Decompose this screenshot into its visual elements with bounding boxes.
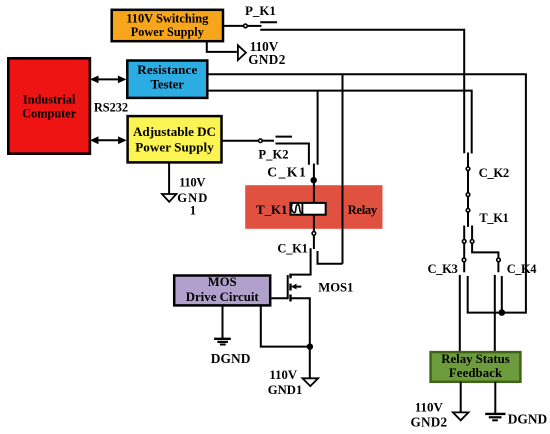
transistor MOS1 body arrow bbox=[295, 286, 302, 288]
svg-text:C_K1: C_K1 bbox=[267, 164, 306, 179]
switch P_K1 contact circle bbox=[244, 24, 248, 28]
wire feedback to DGND bbox=[494, 382, 496, 414]
wire coil top lead bbox=[313, 164, 315, 205]
ground 110V GND 1 triangle bbox=[162, 194, 176, 202]
box 110V Switching Power Supply bbox=[112, 10, 223, 41]
wire drive circuit to source node bbox=[261, 305, 308, 346]
wire C_K4 output to feedback box bbox=[494, 275, 496, 352]
wire C_K3 blade to bus bbox=[468, 276, 526, 313]
svg-text:Resistance: Resistance bbox=[137, 62, 197, 77]
switch contact circle left bbox=[462, 240, 466, 244]
switch C_K1 contact circle bbox=[312, 232, 316, 236]
svg-text:Feedback: Feedback bbox=[449, 366, 503, 380]
svg-text:1: 1 bbox=[190, 204, 196, 218]
wire P_K2 output down to relay coil bbox=[276, 144, 309, 165]
svg-text:110V: 110V bbox=[415, 400, 444, 415]
switch T_K1 contact circle bbox=[466, 209, 470, 213]
transistor MOS1 channel ticks bbox=[289, 274, 291, 279]
wire drive circuit to DGND bbox=[222, 305, 224, 338]
wire vertical through relay box (from top line) redraw over box bbox=[342, 185, 344, 229]
box Adjustable DC Power Supply bbox=[128, 116, 222, 162]
relay coil T_K1 body bbox=[291, 203, 326, 215]
svg-text:C_K3: C_K3 bbox=[428, 262, 458, 276]
ground 110V GND2 triangle bottom bbox=[453, 412, 469, 420]
wire feedback to 110V GND2 bbox=[460, 382, 462, 413]
svg-text:Relay Status: Relay Status bbox=[441, 352, 510, 366]
svg-text:MOS1: MOS1 bbox=[318, 280, 353, 294]
wire left pair to C_K3 bbox=[463, 226, 465, 273]
svg-text:C_K2: C_K2 bbox=[479, 166, 510, 180]
svg-text:MOS: MOS bbox=[208, 275, 237, 289]
wire P_K1 output to C_K2 top-left stub bbox=[260, 30, 464, 154]
switch contact circle right bbox=[470, 240, 474, 244]
switch P_K1 blade bbox=[260, 21, 277, 23]
wire resistance tester bottom output to C_K2 top-right stub bbox=[207, 91, 471, 154]
wire drop to C_K1 top contact bbox=[317, 91, 319, 165]
switch C_K2 contact circle bbox=[466, 167, 470, 171]
wire RS232 arrow computer-tester bbox=[96, 78, 120, 80]
svg-text:GND1: GND1 bbox=[268, 383, 303, 397]
svg-text:T_K1: T_K1 bbox=[256, 202, 288, 217]
transistor MOS1 gate bar bbox=[287, 275, 289, 299]
svg-text:Adjustable DC: Adjustable DC bbox=[133, 124, 216, 139]
wire right pair to C_K4 bbox=[472, 226, 498, 273]
wire DC supply down to 110V GND 1 bbox=[168, 162, 170, 194]
svg-text:Power Supply: Power Supply bbox=[131, 25, 204, 39]
wire drop from top line to C_K1 bottom branch bbox=[342, 74, 344, 263]
ground 110V GND1 triangle bbox=[303, 378, 319, 386]
switch C_K4 contact circle bbox=[497, 258, 501, 262]
svg-text:DGND: DGND bbox=[211, 351, 251, 366]
wire C_K4 blade bbox=[501, 276, 503, 313]
svg-text:C_K4: C_K4 bbox=[507, 262, 537, 276]
junction node source/GND1 bbox=[307, 343, 313, 349]
svg-text:DGND: DGND bbox=[508, 412, 548, 427]
switch C_K2 contact chain middle wire bbox=[467, 153, 469, 227]
ground DGND symbol bbox=[214, 338, 231, 340]
wire source lead down to 110V GND1 bbox=[290, 298, 310, 378]
wire RS232 arrow computer-DC supply bbox=[96, 139, 121, 141]
svg-text:P_K1: P_K1 bbox=[245, 4, 276, 18]
switch P_K1 fixed stub bbox=[248, 25, 262, 27]
wire supply to P_K1 switch bbox=[223, 25, 244, 27]
switch contact circle mid bbox=[466, 193, 470, 197]
switch C_K3 contact circle bbox=[462, 258, 466, 262]
junction node C_K4/bus bbox=[499, 309, 506, 316]
switch P_K2 contact circle bbox=[259, 139, 263, 143]
box Relay bbox=[245, 185, 382, 229]
box MOS Drive Circuit bbox=[174, 276, 270, 306]
svg-text:110V Switching: 110V Switching bbox=[126, 12, 209, 26]
switch C_K1 fixed stub bbox=[313, 235, 315, 249]
ground DGND symbol bottom bbox=[485, 413, 505, 415]
wire C_K3 output to feedback box bbox=[459, 275, 461, 352]
svg-text:RS232: RS232 bbox=[94, 101, 128, 115]
switch P_K2 fixed stub bbox=[263, 140, 274, 142]
wire C_K1 branch to MOS drain bbox=[290, 248, 310, 274]
svg-text:Power Supply: Power Supply bbox=[135, 139, 214, 154]
wire gate lead bbox=[271, 297, 288, 299]
svg-text:Drive Circuit: Drive Circuit bbox=[186, 290, 260, 304]
wire C_K1 branch to right riser bbox=[318, 251, 343, 264]
junction node coil input bbox=[311, 177, 317, 183]
switch P_K2 blade bbox=[276, 136, 293, 138]
svg-text:P_K2: P_K2 bbox=[258, 147, 288, 161]
wire supply down to 110V GND2 bbox=[207, 41, 237, 52]
svg-text:Industrial: Industrial bbox=[23, 93, 76, 107]
wire coil bottom lead bbox=[313, 215, 315, 232]
svg-text:Relay: Relay bbox=[348, 203, 378, 217]
svg-text:GND2: GND2 bbox=[248, 52, 286, 67]
svg-text:GND2: GND2 bbox=[411, 415, 448, 430]
ground 110V GND2 triangle bbox=[238, 45, 246, 60]
svg-text:T_K1: T_K1 bbox=[479, 211, 508, 225]
wire DC supply to P_K2 switch bbox=[222, 140, 259, 142]
box Resistance Tester bbox=[127, 61, 207, 98]
box Industrial Computer bbox=[8, 58, 90, 153]
box Relay Status Feedback bbox=[431, 352, 521, 382]
svg-text:Computer: Computer bbox=[22, 107, 77, 121]
svg-text:Tester: Tester bbox=[151, 77, 185, 92]
svg-text:110V: 110V bbox=[179, 176, 205, 190]
wire resistance tester top output to far-right vertical bbox=[207, 74, 526, 313]
svg-text:C_K1: C_K1 bbox=[277, 241, 308, 255]
svg-text:110V: 110V bbox=[269, 368, 297, 382]
